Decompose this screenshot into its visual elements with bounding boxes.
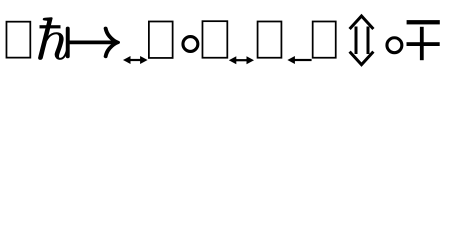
ring operator (1) bbox=[183, 37, 198, 52]
small left-right arrow below (2) bbox=[229, 56, 254, 64]
ring operator (2) bbox=[387, 38, 402, 53]
tofu box 4 bbox=[258, 21, 282, 57]
minus-plus sign bbox=[407, 20, 440, 60]
maps-to arrow bbox=[67, 27, 120, 57]
tofu box 5 bbox=[313, 21, 336, 57]
tofu box 2 bbox=[149, 21, 173, 57]
tofu box 1 (missing glyph) bbox=[6, 22, 30, 58]
small left arrow below bbox=[287, 56, 311, 64]
tofu box 3 bbox=[202, 21, 227, 58]
planck constant hbar bbox=[38, 18, 67, 60]
up-down double arrow bbox=[350, 16, 374, 65]
hbar cross stroke bbox=[40, 25, 61, 28]
small left-right arrow below (1) bbox=[123, 56, 148, 64]
